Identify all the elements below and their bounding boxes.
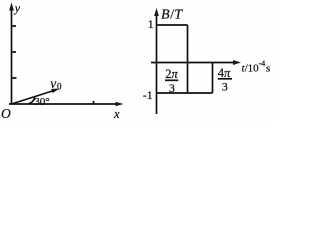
svg-text:-1: -1	[143, 88, 153, 102]
svg-text:s: s	[266, 63, 270, 75]
svg-text:30°: 30°	[34, 96, 49, 108]
svg-text:0: 0	[57, 82, 62, 92]
svg-text:2π: 2π	[165, 67, 178, 81]
svg-text:v: v	[50, 76, 56, 91]
svg-text:-4: -4	[259, 59, 266, 68]
svg-text:B: B	[161, 8, 170, 23]
svg-text:3: 3	[222, 80, 228, 94]
svg-text:4π: 4π	[218, 66, 231, 80]
svg-text:x: x	[113, 107, 120, 121]
svg-text:T: T	[174, 8, 183, 23]
svg-text:1: 1	[148, 17, 154, 31]
svg-text:3: 3	[169, 81, 175, 95]
svg-text:t/10: t/10	[242, 63, 260, 75]
svg-text:y: y	[14, 1, 21, 15]
svg-text:O: O	[1, 106, 11, 121]
